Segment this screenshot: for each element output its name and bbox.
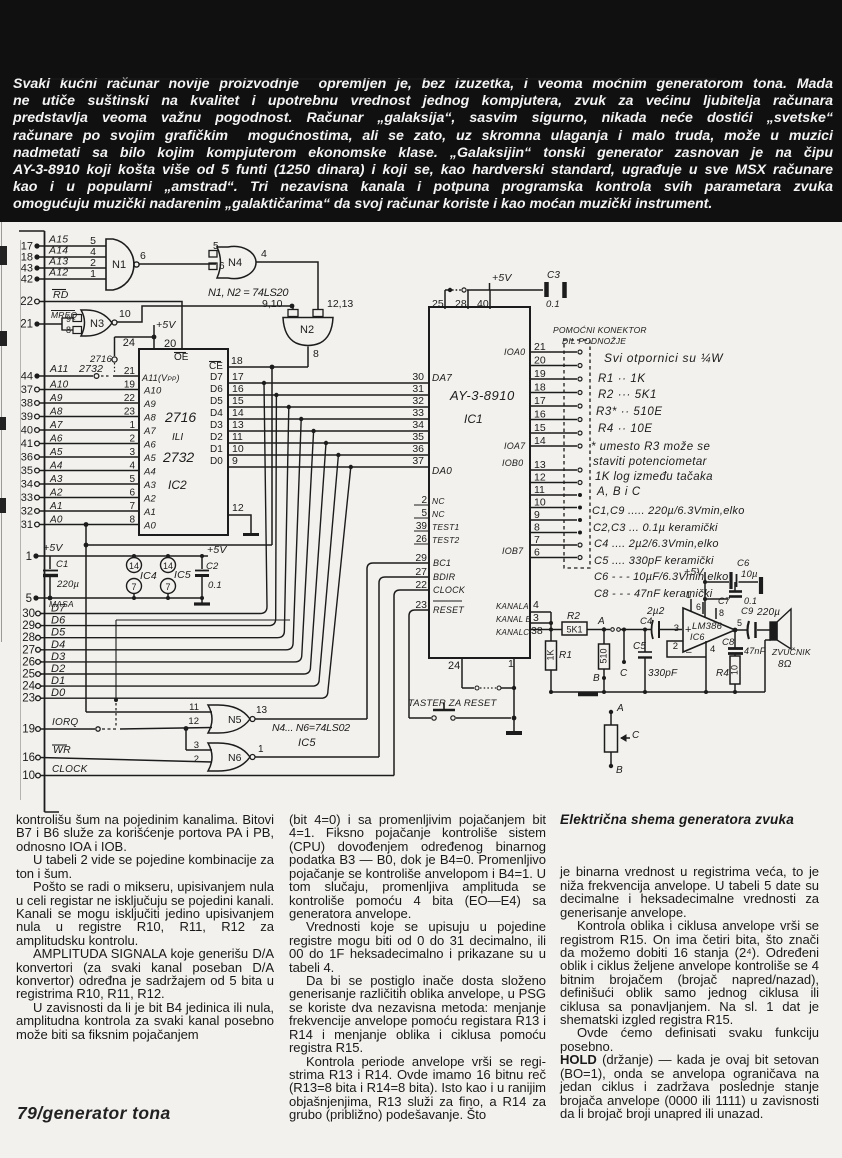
svg-text:D2: D2 <box>51 663 65 675</box>
svg-text:21: 21 <box>534 341 546 353</box>
svg-text:IC5: IC5 <box>174 569 191 581</box>
svg-text:+5V: +5V <box>684 566 704 578</box>
svg-text:40: 40 <box>21 425 33 437</box>
svg-text:11: 11 <box>232 431 243 443</box>
svg-text:ZVUČNIK: ZVUČNIK <box>771 647 811 657</box>
svg-text:A6: A6 <box>49 434 63 445</box>
svg-text:5: 5 <box>737 618 742 628</box>
svg-text:10: 10 <box>729 665 739 675</box>
svg-text:D1: D1 <box>51 675 65 687</box>
svg-text:8: 8 <box>129 515 135 526</box>
svg-text:5: 5 <box>129 474 135 485</box>
svg-text:IC2: IC2 <box>168 478 187 492</box>
svg-text:R1 ·· 1K: R1 ·· 1K <box>598 373 646 385</box>
svg-text:A2: A2 <box>143 494 157 505</box>
svg-text:24: 24 <box>123 337 135 349</box>
svg-text:1: 1 <box>686 590 691 600</box>
svg-text:C4: C4 <box>640 616 653 627</box>
svg-text:6: 6 <box>129 488 135 499</box>
svg-text:staviti potenciometar: staviti potenciometar <box>593 456 708 468</box>
svg-text:IORQ: IORQ <box>52 717 78 728</box>
svg-text:5: 5 <box>26 593 32 605</box>
svg-text:20: 20 <box>534 355 546 367</box>
svg-text:A9: A9 <box>143 399 157 410</box>
svg-text:IC1: IC1 <box>464 412 483 426</box>
svg-text:N4... N6=74LS02: N4... N6=74LS02 <box>272 722 350 734</box>
svg-text:36: 36 <box>21 452 33 464</box>
svg-text:1: 1 <box>129 420 135 431</box>
svg-text:4: 4 <box>710 644 715 655</box>
svg-text:23: 23 <box>415 599 427 611</box>
svg-text:9: 9 <box>534 509 540 521</box>
svg-text:+5V: +5V <box>492 272 512 284</box>
svg-text:N3: N3 <box>90 318 104 330</box>
svg-text:33: 33 <box>21 492 33 504</box>
svg-text:N1: N1 <box>112 259 126 271</box>
svg-text:20: 20 <box>164 338 176 350</box>
svg-text:44: 44 <box>21 371 33 383</box>
svg-text:19: 19 <box>124 380 136 391</box>
svg-text:13: 13 <box>256 705 268 716</box>
svg-text:7: 7 <box>131 582 136 592</box>
svg-text:18: 18 <box>231 355 243 367</box>
svg-text:10: 10 <box>119 308 131 320</box>
svg-text:16: 16 <box>22 752 35 764</box>
svg-text:9: 9 <box>66 314 71 324</box>
svg-text:A4: A4 <box>49 461 63 472</box>
svg-text:14: 14 <box>232 407 244 419</box>
svg-text:15: 15 <box>232 395 244 407</box>
svg-text:C1,C9 ..... 220µ/6.3Vmin,elko: C1,C9 ..... 220µ/6.3Vmin,elko <box>592 505 745 517</box>
svg-text:D0: D0 <box>51 687 66 699</box>
svg-text:3: 3 <box>533 612 539 624</box>
svg-text:4: 4 <box>261 248 267 260</box>
svg-text:34: 34 <box>21 479 33 491</box>
svg-text:A, B i C: A, B i C <box>596 486 641 498</box>
svg-text:5: 5 <box>421 508 427 519</box>
svg-text:TASTER ZA RESET: TASTER ZA RESET <box>408 698 498 709</box>
svg-text:2: 2 <box>129 434 135 445</box>
svg-text:28: 28 <box>22 632 35 644</box>
svg-text:2: 2 <box>194 754 199 765</box>
svg-text:C8 - - - 47nF keramički: C8 - - - 47nF keramički <box>594 588 713 600</box>
svg-text:14: 14 <box>163 561 173 571</box>
svg-text:19: 19 <box>22 724 35 736</box>
svg-text:33: 33 <box>412 407 424 419</box>
svg-text:16: 16 <box>534 409 546 421</box>
svg-text:26: 26 <box>416 534 428 545</box>
svg-text:A8: A8 <box>143 413 157 424</box>
svg-text:6: 6 <box>534 547 540 559</box>
svg-text:17: 17 <box>232 371 244 383</box>
svg-text:BC1: BC1 <box>433 558 451 568</box>
svg-text:R4 ·· 10E: R4 ·· 10E <box>598 423 653 435</box>
svg-text:0.1: 0.1 <box>744 596 757 606</box>
svg-text:8: 8 <box>534 522 540 534</box>
svg-text:1: 1 <box>90 268 96 280</box>
svg-text:OE: OE <box>174 352 189 363</box>
svg-text:C8: C8 <box>722 637 735 648</box>
svg-text:C2: C2 <box>206 561 219 572</box>
svg-text:10µ: 10µ <box>741 569 758 580</box>
svg-text:1K: 1K <box>545 649 555 660</box>
svg-text:C2,C3 ... 0.1µ keramički: C2,C3 ... 0.1µ keramički <box>593 522 718 534</box>
svg-text:37: 37 <box>412 455 424 467</box>
svg-text:9,10: 9,10 <box>262 298 283 310</box>
svg-text:C7: C7 <box>718 596 731 606</box>
svg-text:15: 15 <box>534 422 546 434</box>
svg-text:8Ω: 8Ω <box>778 659 792 670</box>
svg-text:21: 21 <box>20 319 33 331</box>
svg-text:IC6: IC6 <box>690 632 705 642</box>
svg-text:D6: D6 <box>210 384 223 395</box>
svg-text:23: 23 <box>124 407 136 418</box>
svg-text:KANALC: KANALC <box>496 628 529 637</box>
svg-text:10: 10 <box>22 770 35 782</box>
svg-text:R2 ··· 5K1: R2 ··· 5K1 <box>598 389 657 401</box>
svg-text:510: 510 <box>598 648 608 663</box>
svg-text:D5: D5 <box>51 627 66 639</box>
svg-text:N2: N2 <box>300 324 314 336</box>
svg-text:23: 23 <box>22 693 35 705</box>
svg-text:1: 1 <box>508 658 514 670</box>
svg-text:12: 12 <box>232 502 244 514</box>
svg-text:IOB0: IOB0 <box>502 458 523 468</box>
svg-text:25: 25 <box>432 298 444 310</box>
svg-text:C6: C6 <box>737 558 750 569</box>
svg-text:D6: D6 <box>51 615 66 627</box>
svg-text:0.1: 0.1 <box>208 580 222 591</box>
svg-text:B: B <box>593 673 600 684</box>
svg-text:D4: D4 <box>51 639 65 651</box>
svg-text:IOB7: IOB7 <box>502 546 524 556</box>
svg-text:D7: D7 <box>210 372 223 383</box>
svg-text:27: 27 <box>22 644 35 656</box>
svg-text:5K1: 5K1 <box>566 625 582 635</box>
svg-text:11: 11 <box>189 702 199 713</box>
svg-text:DIL PODNOŽJE: DIL PODNOŽJE <box>562 336 626 346</box>
svg-text:Svi otpornici su ¼W: Svi otpornici su ¼W <box>604 351 724 365</box>
svg-text:A: A <box>616 703 624 714</box>
svg-text:N6: N6 <box>228 752 242 764</box>
svg-text:30: 30 <box>22 608 35 620</box>
svg-text:21: 21 <box>124 366 136 377</box>
svg-text:NC: NC <box>432 509 445 519</box>
svg-text:9: 9 <box>232 455 238 467</box>
svg-text:29: 29 <box>22 620 35 632</box>
svg-text:KANAL B: KANAL B <box>496 615 532 624</box>
svg-text:7: 7 <box>129 501 135 512</box>
svg-text:2732: 2732 <box>162 449 194 465</box>
svg-text:A1: A1 <box>49 501 63 512</box>
svg-text:35: 35 <box>412 431 424 443</box>
svg-text:+5V: +5V <box>43 542 63 554</box>
svg-text:D5: D5 <box>210 396 223 407</box>
svg-text:6: 6 <box>140 250 146 262</box>
svg-text:12: 12 <box>188 716 199 727</box>
svg-text:CLOCK: CLOCK <box>433 585 466 595</box>
svg-text:TEST2: TEST2 <box>432 535 460 545</box>
svg-text:8: 8 <box>313 348 319 360</box>
svg-text:13: 13 <box>534 459 546 471</box>
svg-text:1: 1 <box>258 744 264 755</box>
svg-text:A8: A8 <box>49 407 63 418</box>
svg-text:N4: N4 <box>228 257 242 269</box>
svg-text:1K log između tačaka: 1K log između tačaka <box>595 471 713 483</box>
svg-text:30: 30 <box>412 371 424 383</box>
svg-text:39: 39 <box>416 521 428 532</box>
svg-text:A10: A10 <box>143 386 162 397</box>
svg-text:32: 32 <box>21 506 33 518</box>
svg-text:A4: A4 <box>143 467 156 478</box>
svg-text:NC: NC <box>432 496 445 506</box>
svg-text:* umesto R3 može se: * umesto R3 može se <box>591 441 710 453</box>
svg-text:1: 1 <box>26 551 32 563</box>
svg-text:BDIR: BDIR <box>433 572 456 582</box>
svg-text:10: 10 <box>232 443 244 455</box>
svg-text:TEST1: TEST1 <box>432 522 460 532</box>
svg-text:A1: A1 <box>143 507 156 518</box>
svg-text:DA0: DA0 <box>432 466 452 477</box>
svg-text:POMOĆNI KONEKTOR: POMOĆNI KONEKTOR <box>553 325 647 335</box>
svg-text:A: A <box>597 616 605 627</box>
svg-text:A11(VPP): A11(VPP) <box>141 373 180 383</box>
svg-text:N5: N5 <box>228 714 242 726</box>
svg-text:12: 12 <box>534 472 546 484</box>
svg-text:2716: 2716 <box>164 409 196 425</box>
svg-text:C5: C5 <box>633 641 646 652</box>
svg-text:37: 37 <box>21 384 33 396</box>
svg-text:CLOCK: CLOCK <box>52 764 89 775</box>
svg-text:22: 22 <box>20 296 33 308</box>
svg-text:D2: D2 <box>210 432 223 443</box>
svg-text:27: 27 <box>415 566 427 578</box>
svg-text:C: C <box>632 730 640 741</box>
svg-text:35: 35 <box>21 465 33 477</box>
svg-text:6: 6 <box>696 602 701 612</box>
svg-text:12,13: 12,13 <box>327 298 353 310</box>
svg-text:A3: A3 <box>49 474 63 485</box>
svg-text:41: 41 <box>21 438 33 450</box>
svg-text:RD: RD <box>53 289 69 301</box>
svg-text:18: 18 <box>534 382 546 394</box>
svg-text:3: 3 <box>129 447 135 458</box>
svg-text:22: 22 <box>124 393 136 404</box>
svg-text:A12: A12 <box>48 267 68 279</box>
svg-text:13: 13 <box>232 419 244 431</box>
svg-text:17: 17 <box>534 395 546 407</box>
svg-text:10: 10 <box>534 497 546 509</box>
svg-text:R2: R2 <box>567 611 580 622</box>
svg-text:D1: D1 <box>210 444 223 455</box>
svg-text:19: 19 <box>534 368 546 380</box>
svg-text:2: 2 <box>673 641 678 652</box>
svg-text:R4: R4 <box>716 668 729 679</box>
svg-text:25: 25 <box>22 669 35 681</box>
svg-text:R3* ·· 510E: R3* ·· 510E <box>596 406 663 418</box>
svg-text:16: 16 <box>232 383 244 395</box>
svg-text:31: 31 <box>21 519 33 531</box>
svg-text:DA7: DA7 <box>432 373 452 384</box>
svg-text:D0: D0 <box>210 456 223 467</box>
svg-text:42: 42 <box>21 274 33 286</box>
svg-text:D4: D4 <box>210 408 223 419</box>
svg-text:WR: WR <box>53 744 71 756</box>
svg-text:0.1: 0.1 <box>546 299 560 310</box>
svg-text:C1: C1 <box>56 559 69 570</box>
svg-text:4: 4 <box>533 599 539 611</box>
svg-text:11: 11 <box>534 484 545 496</box>
svg-text:32: 32 <box>412 395 424 407</box>
svg-text:2732: 2732 <box>78 363 103 375</box>
svg-text:IC5: IC5 <box>298 737 316 749</box>
svg-text:A3: A3 <box>143 480 157 491</box>
svg-text:40: 40 <box>477 298 489 310</box>
svg-text:IOA0: IOA0 <box>504 347 525 357</box>
svg-text:14: 14 <box>129 561 139 571</box>
svg-text:8: 8 <box>719 608 724 618</box>
svg-text:A0: A0 <box>143 521 157 532</box>
svg-text:29: 29 <box>415 552 427 564</box>
svg-text:A0: A0 <box>49 515 63 526</box>
svg-text:D3: D3 <box>210 420 223 431</box>
svg-text:38: 38 <box>21 398 33 410</box>
svg-text:KANALA: KANALA <box>496 602 529 611</box>
svg-text:7: 7 <box>165 582 170 592</box>
svg-text:28: 28 <box>455 298 467 310</box>
svg-text:D3: D3 <box>51 651 66 663</box>
svg-text:39: 39 <box>21 411 33 423</box>
svg-text:MASA: MASA <box>49 599 74 609</box>
svg-text:RESET: RESET <box>433 605 465 615</box>
svg-text:C6 - - - 10µF/6.3Vmin,elko: C6 - - - 10µF/6.3Vmin,elko <box>594 571 728 583</box>
svg-text:26: 26 <box>22 656 35 668</box>
svg-text:C3: C3 <box>547 270 560 281</box>
svg-text:+5V: +5V <box>156 319 176 331</box>
svg-text:C4 .... 2µ2/6.3Vmin,elko: C4 .... 2µ2/6.3Vmin,elko <box>594 538 719 550</box>
svg-text:36: 36 <box>412 443 424 455</box>
svg-text:47nF: 47nF <box>744 646 766 656</box>
svg-text:4: 4 <box>129 461 135 472</box>
svg-text:IOA7: IOA7 <box>504 441 526 451</box>
svg-text:+5V: +5V <box>207 544 227 556</box>
svg-text:7: 7 <box>534 534 540 546</box>
svg-text:A5: A5 <box>143 453 157 464</box>
svg-text:C9: C9 <box>741 606 754 617</box>
svg-text:A9: A9 <box>49 393 63 404</box>
svg-text:C: C <box>620 668 628 679</box>
svg-text:330pF: 330pF <box>648 668 678 679</box>
svg-text:8: 8 <box>66 325 71 335</box>
svg-text:34: 34 <box>412 419 424 431</box>
svg-text:24: 24 <box>22 681 35 693</box>
svg-text:220µ: 220µ <box>56 579 79 590</box>
svg-text:38: 38 <box>531 625 543 637</box>
svg-text:AY-3-8910: AY-3-8910 <box>449 388 515 403</box>
svg-text:3: 3 <box>194 740 199 751</box>
svg-text:220µ: 220µ <box>756 607 780 618</box>
svg-text:A11: A11 <box>49 363 69 375</box>
svg-text:3: 3 <box>674 623 679 634</box>
svg-text:14: 14 <box>534 435 546 447</box>
svg-text:A6: A6 <box>143 440 157 451</box>
svg-text:R1: R1 <box>559 650 572 661</box>
svg-text:A7: A7 <box>49 420 63 431</box>
svg-text:A2: A2 <box>49 488 63 499</box>
svg-text:B: B <box>616 765 623 776</box>
svg-text:ILI: ILI <box>172 432 183 443</box>
svg-text:CE: CE <box>209 361 223 372</box>
svg-text:A7: A7 <box>143 426 157 437</box>
svg-text:A10: A10 <box>49 380 69 391</box>
svg-text:24: 24 <box>448 660 460 672</box>
svg-text:2: 2 <box>421 495 427 506</box>
svg-text:31: 31 <box>412 383 424 395</box>
svg-text:A5: A5 <box>49 447 63 458</box>
svg-text:LM386: LM386 <box>692 621 723 632</box>
svg-text:22: 22 <box>415 579 427 591</box>
svg-text:IC4: IC4 <box>140 570 157 582</box>
